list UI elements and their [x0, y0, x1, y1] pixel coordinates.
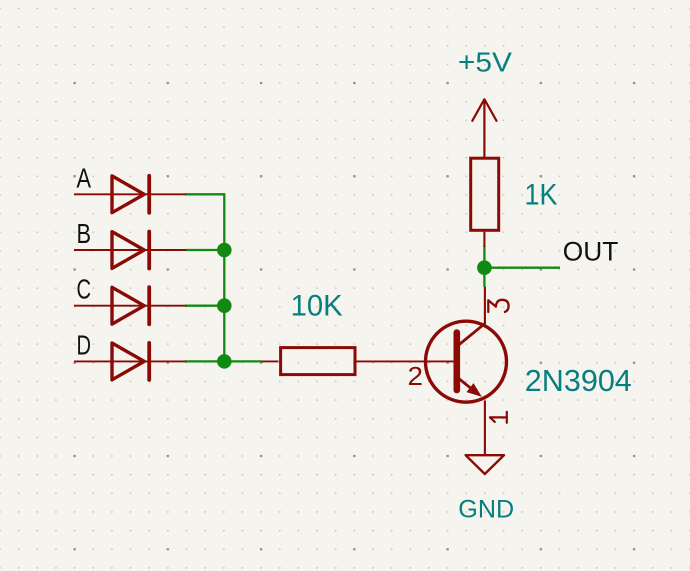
svg-text:+5V: +5V [458, 46, 512, 77]
svg-text:C: C [77, 274, 92, 305]
svg-text:B: B [77, 218, 92, 249]
svg-text:10K: 10K [291, 289, 343, 322]
svg-text:GND: GND [458, 495, 514, 523]
svg-text:2N3904: 2N3904 [525, 363, 632, 398]
svg-text:1K: 1K [525, 178, 558, 211]
svg-text:A: A [77, 163, 92, 194]
svg-text:OUT: OUT [563, 236, 619, 266]
svg-text:D: D [77, 329, 92, 360]
svg-text:2: 2 [408, 361, 424, 391]
